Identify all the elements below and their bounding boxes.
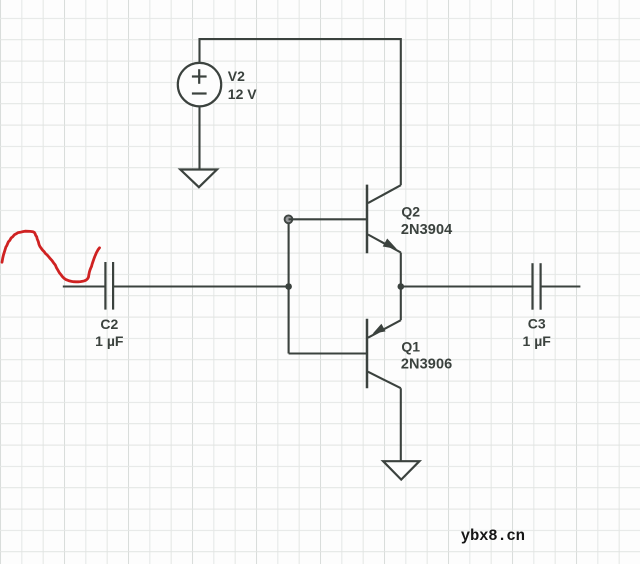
- voltage source V2: [178, 63, 221, 106]
- wire: input junction down to Q1 base wire: [288, 287, 290, 354]
- svg-text:2N3904: 2N3904: [401, 222, 452, 238]
- capacitor C2: [105, 262, 113, 310]
- wire: base of Q2: [289, 218, 367, 220]
- capacitor C3: [533, 263, 541, 310]
- wire: Q1 collector to ground: [400, 388, 402, 461]
- svg-text:ybx8.cn: ybx8.cn: [461, 527, 525, 545]
- svg-text:C3: C3: [528, 315, 546, 331]
- svg-text:2N3906: 2N3906: [401, 357, 452, 373]
- wire: V2 negative terminal to ground: [198, 106, 200, 169]
- svg-text:1 µF: 1 µF: [523, 333, 552, 349]
- wire: C3 output lead: [541, 285, 581, 287]
- annotation: hand-drawn red input sine wave: [2, 231, 100, 282]
- node (gray terminal dot at bases): [285, 215, 293, 223]
- svg-text:C2: C2: [100, 316, 118, 332]
- junction (output node): [398, 283, 405, 290]
- wire: input junction up to base node: [288, 219, 290, 286]
- svg-text:Q2: Q2: [401, 204, 420, 220]
- wire: output node to C3: [401, 285, 533, 287]
- ground (below V2): [180, 170, 217, 188]
- svg-text:12 V: 12 V: [228, 86, 257, 102]
- wire: C2 to input junction node: [113, 285, 289, 287]
- ground (below Q1): [383, 461, 419, 479]
- svg-text:Q1: Q1: [401, 338, 420, 354]
- wire: input lead into C2: [63, 285, 106, 287]
- wire: V+ rail from V2 positive terminal to Q2 collector: [200, 39, 401, 185]
- junction (input node): [285, 283, 292, 290]
- svg-text:V2: V2: [228, 68, 245, 84]
- transistor Q2 (NPN 2N3904): [367, 185, 401, 287]
- transistor Q1 (PNP 2N3906): [367, 287, 401, 389]
- svg-text:1 µF: 1 µF: [95, 333, 124, 349]
- wire: base of Q1: [289, 352, 367, 354]
